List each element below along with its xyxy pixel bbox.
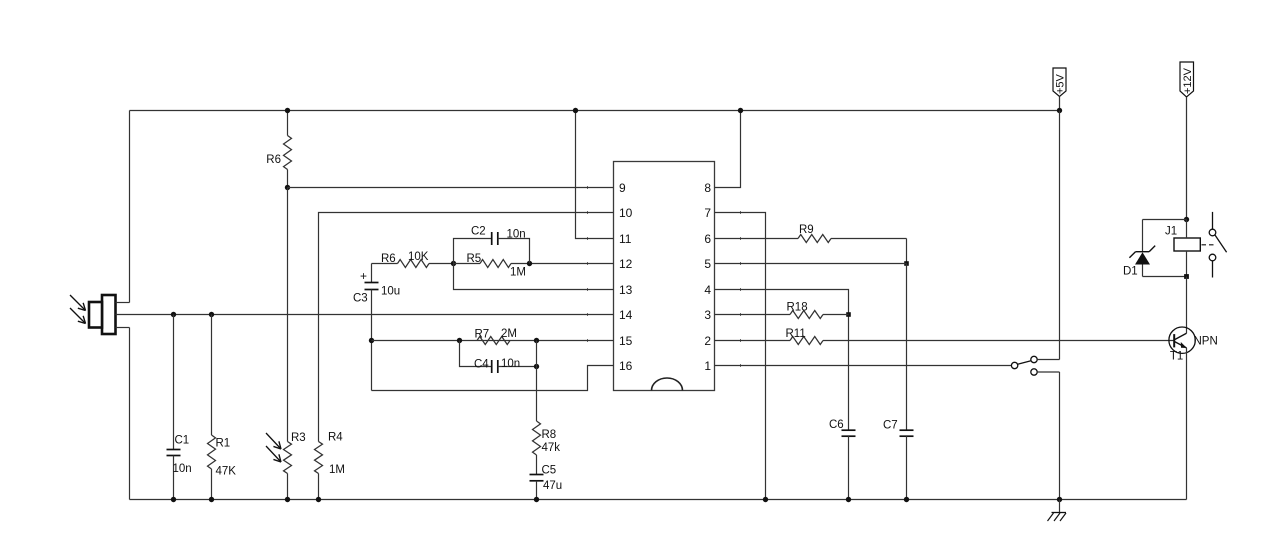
- svg-text:10n: 10n: [173, 463, 192, 475]
- junction relay bottom node: [1184, 274, 1189, 279]
- svg-text:2: 2: [704, 334, 711, 348]
- junction R5 left node: [451, 261, 456, 266]
- junction R1 signal: [209, 312, 214, 317]
- wire pin15: [372, 340, 614, 342]
- capacitor C4 10n: [460, 341, 537, 374]
- resistor R9: [715, 224, 907, 264]
- wire pin7 to ground: [715, 213, 766, 500]
- svg-text:C4: C4: [474, 359, 489, 371]
- svg-text:+5V: +5V: [1055, 73, 1067, 94]
- svg-text:15: 15: [619, 334, 633, 348]
- svg-text:47u: 47u: [543, 480, 562, 492]
- svg-text:NPN: NPN: [1194, 335, 1218, 347]
- svg-text:1M: 1M: [329, 464, 345, 476]
- switch S1 lower contact: [1031, 369, 1060, 375]
- junction pin8 rail: [738, 108, 743, 113]
- svg-text:C5: C5: [542, 465, 557, 477]
- svg-text:R7: R7: [475, 329, 490, 341]
- capacitor C2 10n: [454, 226, 530, 264]
- wire ground bottom rail: [130, 499, 1187, 501]
- wire +5V top rail: [130, 110, 1060, 112]
- resistor R11: [715, 328, 1175, 345]
- junction R18 node: [846, 312, 851, 317]
- junction pin5 node: [904, 261, 909, 266]
- wire left rail lower: [129, 328, 131, 500]
- relay J1 mechanical link: [1202, 244, 1216, 246]
- svg-text:2M: 2M: [501, 328, 517, 340]
- svg-text:R9: R9: [799, 224, 814, 236]
- junction pin11 rail: [573, 108, 578, 113]
- IC U1 pin end ticks: [588, 186, 741, 367]
- switch S1 upper contact: [1031, 356, 1060, 362]
- svg-text:1M: 1M: [510, 267, 526, 279]
- wire pin8 to +5V rail: [715, 111, 741, 188]
- resistor R6 10K: [372, 251, 454, 268]
- svg-text:T1: T1: [1170, 351, 1183, 363]
- junction R1 ground: [209, 497, 214, 502]
- transistor T1 NPN: [1169, 327, 1218, 363]
- wire pin5: [715, 263, 907, 265]
- wire pin16: [372, 366, 614, 391]
- junction C4 right node: [534, 364, 539, 369]
- resistor R7 2M: [475, 328, 517, 345]
- svg-text:C1: C1: [175, 435, 190, 447]
- wire pin11 to +5V rail: [576, 111, 614, 239]
- svg-text:10: 10: [619, 206, 633, 220]
- junction C7 ground: [904, 497, 909, 502]
- svg-text:5: 5: [704, 257, 711, 271]
- wire relay to T1 collector: [1186, 277, 1188, 334]
- LDR arrows R3: [266, 433, 281, 462]
- svg-text:16: 16: [619, 359, 633, 373]
- svg-text:+12V: +12V: [1182, 67, 1194, 94]
- svg-text:10u: 10u: [381, 286, 400, 298]
- svg-text:R8: R8: [542, 429, 557, 441]
- IC U1 right pin numbers 8-1: [704, 181, 711, 373]
- svg-text:10n: 10n: [507, 229, 526, 241]
- svg-text:C3: C3: [353, 293, 368, 305]
- microphone arrows: [70, 295, 86, 324]
- resistor R6 (pull-up): [266, 111, 291, 188]
- wire pin10 to R4: [319, 213, 614, 442]
- svg-text:12: 12: [619, 257, 633, 271]
- wire switch to ground: [1059, 372, 1061, 500]
- svg-text:14: 14: [619, 308, 633, 322]
- capacitor C5 47u: [530, 465, 563, 500]
- junction C6 ground: [846, 497, 851, 502]
- svg-text:8: 8: [704, 181, 711, 195]
- power flag +12V: [1180, 62, 1194, 220]
- IC U1 left pin numbers 9-16: [619, 181, 633, 373]
- capacitor C1 10n: [167, 315, 192, 500]
- svg-text:9: 9: [619, 181, 626, 195]
- wire left rail upper: [129, 111, 131, 303]
- svg-text:47K: 47K: [216, 466, 237, 478]
- switch S1 lever: [1018, 361, 1031, 365]
- resistor R4 1M: [315, 432, 345, 500]
- resistor R5 1M: [454, 253, 614, 279]
- capacitor C7: [883, 264, 914, 500]
- capacitor C3 10u: [353, 264, 400, 391]
- svg-text:D1: D1: [1123, 266, 1138, 278]
- wire mic signal to pin14: [116, 314, 614, 316]
- wire pin4: [715, 290, 849, 431]
- junction C1 ground: [171, 497, 176, 502]
- svg-text:13: 13: [619, 283, 633, 297]
- junction +5V rail: [1057, 108, 1062, 113]
- diode D1 (flyback): [1123, 220, 1187, 278]
- relay J1 contact upper: [1209, 212, 1226, 252]
- svg-text:R3: R3: [291, 432, 306, 444]
- ground: [1048, 500, 1067, 522]
- svg-text:11: 11: [619, 232, 632, 246]
- junction C3 pin15 node: [369, 338, 374, 343]
- junction R8 ground: [534, 497, 539, 502]
- svg-text:3: 3: [704, 308, 711, 322]
- wire +5V vertical: [1059, 111, 1061, 360]
- svg-text:R5: R5: [467, 253, 482, 265]
- resistor R18: [715, 302, 849, 319]
- wire T1 emitter to ground: [1186, 348, 1188, 500]
- svg-text:J1: J1: [1165, 226, 1177, 238]
- svg-text:7: 7: [704, 206, 711, 220]
- svg-text:R4: R4: [328, 432, 343, 444]
- junction R6 top rail: [285, 108, 290, 113]
- svg-text:R18: R18: [787, 302, 808, 314]
- svg-text:1: 1: [704, 359, 711, 373]
- svg-text:6: 6: [704, 232, 711, 246]
- svg-text:C6: C6: [829, 419, 844, 431]
- svg-text:C2: C2: [471, 226, 486, 238]
- IC U1 body: [614, 162, 715, 391]
- microphone MIC1: [89, 295, 116, 334]
- svg-text:R6: R6: [266, 154, 281, 166]
- wire pin13: [454, 264, 614, 290]
- svg-text:C7: C7: [883, 420, 898, 432]
- wire pin1 to switch: [715, 365, 1012, 367]
- capacitor C6: [829, 419, 856, 500]
- svg-text:R1: R1: [216, 438, 231, 450]
- relay J1 coil: [1165, 220, 1200, 277]
- svg-text:+: +: [360, 269, 367, 283]
- resistor R1 47K: [208, 315, 237, 500]
- junction relay top node: [1184, 217, 1189, 222]
- wire mic top terminal: [116, 302, 130, 304]
- wire mic bottom terminal: [116, 327, 130, 329]
- power flag +5V: [1053, 68, 1067, 111]
- wire pin9 to R6: [288, 187, 614, 189]
- relay J1 contact lower: [1209, 254, 1216, 277]
- switch S1 common: [1011, 362, 1017, 368]
- junction switch ground: [1057, 497, 1062, 502]
- svg-text:47k: 47k: [542, 442, 561, 454]
- junction R4 ground: [316, 497, 321, 502]
- svg-text:10n: 10n: [501, 358, 520, 370]
- resistor R3 (LDR): [284, 188, 306, 500]
- svg-text:4: 4: [704, 283, 711, 297]
- junction R7 left node: [457, 338, 462, 343]
- resistor R8 47k: [533, 341, 561, 475]
- svg-text:10K: 10K: [408, 251, 429, 263]
- junction R3 ground: [285, 497, 290, 502]
- junction C1 signal: [171, 312, 176, 317]
- svg-text:R6: R6: [381, 253, 396, 265]
- junction R6 pin9: [285, 185, 290, 190]
- junction pin7 ground: [763, 497, 768, 502]
- junction R7 right node: [534, 338, 539, 343]
- junction R5 right node: [527, 261, 532, 266]
- svg-text:R11: R11: [786, 328, 806, 340]
